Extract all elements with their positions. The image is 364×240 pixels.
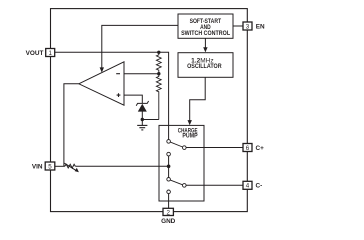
switch S2 arm: [170, 180, 182, 185]
op-amp U1 (error amplifier, pointing left): [79, 62, 124, 105]
switch S1 lower contact: [167, 152, 171, 156]
svg-text:2: 2: [166, 210, 170, 217]
switch S1 common contact: [183, 146, 187, 150]
svg-text:C-: C-: [256, 183, 263, 190]
wire: S2 common to C- pin: [186, 184, 243, 186]
op-amp plus sign: [117, 93, 121, 97]
node: charge pump VIN junction dot: [167, 165, 171, 169]
block: soft-start and switch control: [178, 14, 233, 38]
svg-text:1: 1: [48, 50, 52, 57]
switch S1 upper contact: [167, 140, 171, 144]
switch S2 upper contact: [167, 178, 171, 182]
ground: [137, 124, 147, 126]
variable resistor arrow: [64, 163, 77, 171]
wire: soft-start to oscillator (arrow): [204, 38, 206, 48]
op-amp minus sign: [116, 73, 120, 75]
resistor R1 (upper feedback divider): [156, 52, 161, 73]
zener diode D1: [136, 101, 148, 106]
svg-text:4: 4: [246, 183, 250, 190]
pin 2 GND square: [163, 208, 173, 215]
block: 1.2MHz oscillator: [178, 53, 233, 78]
node: divider top junction dot: [157, 51, 160, 54]
variable resistor (pass element) zigzag: [65, 164, 76, 168]
pin 3 EN square: [243, 22, 252, 30]
wire: inverting input to divider midpoint: [124, 73, 159, 75]
wire: zener anode to ground node: [141, 112, 143, 126]
pin 6 C+ square: [243, 144, 252, 152]
svg-text:PUMP: PUMP: [182, 132, 197, 139]
svg-text:VIN: VIN: [32, 164, 43, 171]
wire: EN pin to soft-start block: [233, 25, 243, 27]
svg-text:5: 5: [48, 164, 52, 171]
wire: pass element to charge pump VIN node: [75, 165, 167, 167]
resistor R2 (lower feedback divider): [156, 74, 161, 120]
outer IC boundary box: [51, 9, 248, 212]
svg-text:C+: C+: [256, 145, 265, 152]
wire: oscillator to charge pump (jog with arrow): [190, 77, 206, 121]
svg-text:EN: EN: [256, 23, 265, 30]
svg-text:GND: GND: [161, 218, 176, 225]
wire: VOUT pin to divider and charge pump: [55, 52, 169, 139]
wire: VIN pin to pass element: [55, 165, 65, 167]
wire: op-amp output down to pass element: [64, 84, 79, 167]
svg-text:OSCILLATOR: OSCILLATOR: [187, 63, 222, 70]
wire: divider bottom to zener node: [142, 119, 159, 121]
node: zener/divider ground junction dot: [141, 118, 144, 121]
svg-text:6: 6: [246, 145, 250, 152]
switch S1 arm: [170, 142, 182, 147]
svg-text:SWITCH CONTROL: SWITCH CONTROL: [181, 30, 230, 37]
wire: soft-start to error amp (horiz+vert with arrow): [102, 25, 178, 68]
pin 1 VOUT square: [46, 49, 55, 57]
node: divider midpoint dot: [157, 72, 160, 75]
wire: S2 lower contact to GND pin: [168, 194, 170, 209]
wire: non-inverting input to zener: [124, 95, 142, 103]
pin 5 VIN square: [45, 162, 55, 170]
block: charge pump: [159, 125, 204, 201]
svg-text:3: 3: [246, 23, 250, 30]
wire: S1 common to C+ pin: [186, 147, 243, 149]
pin 4 C- square: [243, 181, 252, 189]
svg-text:VOUT: VOUT: [26, 50, 44, 57]
wire: VIN node up to switch S1 lower contact: [168, 156, 170, 178]
switch S2 common contact: [183, 184, 187, 188]
switch S2 lower contact (to GND): [167, 190, 171, 194]
